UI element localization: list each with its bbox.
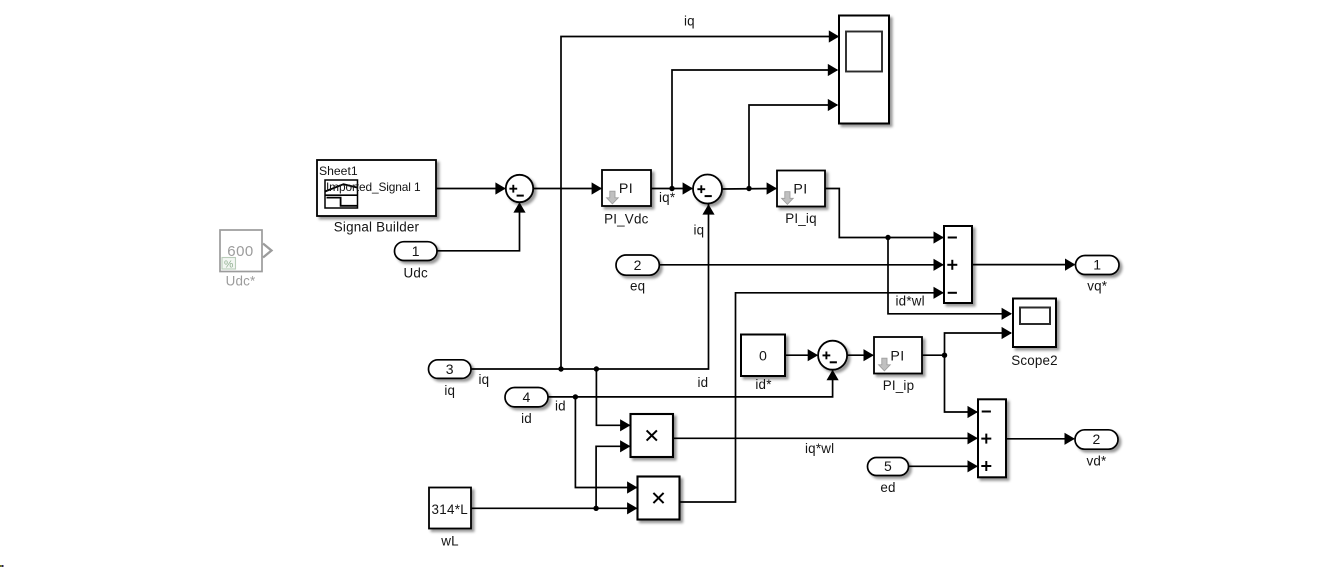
- svg-text:id: id: [698, 375, 709, 390]
- svg-text:%: %: [224, 258, 234, 270]
- svg-text:Imported_Signal 1: Imported_Signal 1: [326, 180, 421, 194]
- svg-text:id: id: [521, 411, 532, 426]
- svg-text:PI: PI: [890, 348, 904, 364]
- svg-text:2: 2: [1093, 431, 1101, 447]
- svg-text:eq: eq: [630, 279, 645, 294]
- svg-text:4: 4: [523, 389, 531, 405]
- svg-text:vd*: vd*: [1087, 454, 1107, 469]
- svg-text:1: 1: [412, 243, 420, 259]
- svg-text:PI_iq: PI_iq: [785, 211, 817, 226]
- svg-text:314*L: 314*L: [432, 502, 469, 517]
- svg-text:iq: iq: [684, 13, 695, 28]
- svg-text:PI_Vdc: PI_Vdc: [604, 211, 648, 226]
- svg-text:PI: PI: [793, 182, 807, 198]
- svg-text:wL: wL: [440, 534, 459, 549]
- svg-text:iq*wl: iq*wl: [805, 441, 834, 456]
- svg-text:id*wl: id*wl: [896, 293, 925, 308]
- svg-text:Scope2: Scope2: [1011, 353, 1058, 368]
- svg-text:ed: ed: [880, 480, 895, 495]
- svg-text:Udc: Udc: [404, 266, 429, 281]
- svg-text:vq*: vq*: [1087, 279, 1107, 294]
- svg-text:Udc*: Udc*: [226, 273, 256, 288]
- svg-text:Sheet1: Sheet1: [319, 164, 358, 178]
- svg-text:3: 3: [446, 361, 454, 377]
- svg-text:2: 2: [634, 257, 642, 273]
- svg-text:iq: iq: [479, 372, 490, 387]
- svg-text:5: 5: [884, 458, 892, 474]
- svg-text:id*: id*: [755, 377, 771, 392]
- svg-text:0: 0: [759, 349, 767, 365]
- svg-text:1: 1: [1093, 257, 1101, 273]
- svg-text:Signal Builder: Signal Builder: [334, 220, 420, 235]
- svg-text:iq: iq: [444, 383, 455, 398]
- svg-text:iq: iq: [694, 223, 705, 238]
- svg-text:PI: PI: [619, 181, 633, 197]
- svg-text:id: id: [555, 398, 566, 413]
- svg-text:iq*: iq*: [659, 190, 675, 205]
- svg-text:PI_ip: PI_ip: [883, 378, 915, 393]
